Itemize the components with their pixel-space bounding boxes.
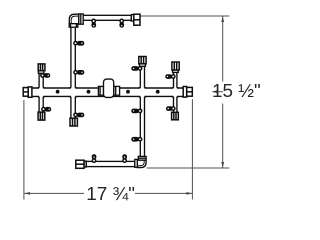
manifold port dot 2 xyxy=(87,90,91,94)
cap of riser 1 lower stub (hatched) xyxy=(38,112,45,120)
jet on right pipe upper stub (points left) xyxy=(131,66,141,71)
riser 4 lower stub below manifold xyxy=(173,96,175,112)
cap at bottom of left pipe (hatched orifice cap) xyxy=(70,118,77,126)
jet of riser 1 lower (points right) xyxy=(42,107,51,112)
bottom pipe left collar xyxy=(84,161,86,167)
bottom pipe end cap xyxy=(76,160,84,168)
riser socket ticks top xyxy=(38,87,179,89)
dimension extension line right (below manifold right end) xyxy=(191,99,193,199)
top elbow (corner upper-left) xyxy=(69,14,79,24)
cap of riser 4 (hatched orifice cap) xyxy=(172,62,179,70)
jet of riser 4 (points left) xyxy=(165,74,175,79)
left vertical pipe lower stub xyxy=(70,96,72,118)
bottom elbow (corner lower-right) xyxy=(137,160,146,168)
top elbow right flange xyxy=(79,14,83,24)
top pipe xyxy=(83,15,132,20)
manifold port dot 3 xyxy=(126,90,130,94)
manifold bottom edge segments xyxy=(32,95,183,97)
bottom elbow left socket xyxy=(135,159,138,167)
riser socket ticks bottom xyxy=(38,96,179,98)
dimension extension line top (from top pipe cap to right) xyxy=(140,15,229,17)
svg-text:15 ½": 15 ½" xyxy=(212,81,261,102)
cap of riser 1 (hatched orifice cap) xyxy=(38,64,45,71)
manifold right end cap xyxy=(187,87,193,96)
dimension extension line bottom right (from bottom elbow to right) xyxy=(147,167,230,169)
manifold port dot 1 xyxy=(56,90,60,94)
svg-text:17 ¾": 17 ¾" xyxy=(86,184,135,205)
manifold port dot 4 xyxy=(156,90,160,94)
top pipe end cap xyxy=(134,14,140,25)
right vertical pipe (from bottom elbow up through manifold) xyxy=(139,96,141,156)
jet of riser 1 (points right) xyxy=(41,73,50,78)
vertical dimension line 15 1/2 upper segment xyxy=(222,16,224,81)
dimension extension line left (below manifold left end) xyxy=(23,100,25,200)
manifold top edge segments xyxy=(32,87,183,89)
bottom pipe xyxy=(86,161,135,166)
arrowhead down (bottom of vertical dimension) xyxy=(221,162,224,168)
jet on left pipe lower stub (points right) xyxy=(74,113,84,118)
center fitting body (rounded) xyxy=(104,79,114,97)
cap of riser 4 lower stub (hatched) xyxy=(172,112,179,120)
top pipe jet 1 (points down) xyxy=(91,19,96,27)
collar under riser 1 cap xyxy=(38,71,44,74)
collar under cap of right pipe stub xyxy=(140,64,146,67)
bottom elbow inner arc xyxy=(137,160,144,166)
riser 1 above manifold (x=41) xyxy=(38,73,40,88)
arrowhead right (horizontal dimension) xyxy=(186,192,192,195)
riser 4 above manifold (x=175) xyxy=(173,72,175,88)
jet on right pipe below manifold 2 (points left) xyxy=(131,137,141,142)
top pipe jet 2 (points down) xyxy=(119,19,124,27)
vertical dimension line 15 1/2 lower segment xyxy=(222,104,224,168)
center fitting left collar xyxy=(98,86,103,95)
manifold right end hex xyxy=(183,87,187,98)
jet on right pipe below manifold 1 (points left) xyxy=(131,109,141,114)
bottom elbow top socket xyxy=(138,156,146,160)
jet of riser 4 lower (points left) xyxy=(166,106,175,111)
cap on top of right pipe stub (hatched orifice cap) xyxy=(139,57,146,64)
right vertical pipe upper stub xyxy=(139,66,141,88)
bottom pipe jet 2 (points up) xyxy=(122,154,127,162)
arrowhead up (top of vertical dimension) xyxy=(221,16,224,22)
horizontal dimension line 17 3/4 left segment xyxy=(24,192,84,194)
manifold left end hex xyxy=(28,87,32,97)
manifold main pipe body fill xyxy=(32,88,183,97)
top elbow inner arc xyxy=(71,16,79,24)
jet on left pipe second (points right) xyxy=(74,70,84,75)
center fitting right collar xyxy=(114,86,120,95)
small leader arrow at text 15 1/2 xyxy=(213,91,223,93)
jet on left pipe upper (points right) xyxy=(74,41,84,46)
horizontal dimension line 17 3/4 right segment xyxy=(135,192,192,194)
collar under riser 4 cap xyxy=(173,70,179,72)
riser 1 lower stub below manifold xyxy=(38,96,40,112)
top pipe right collar xyxy=(131,15,134,21)
top elbow bottom flange xyxy=(69,24,78,28)
manifold left end cap xyxy=(23,88,28,97)
bottom pipe jet 1 (points up) xyxy=(92,154,97,162)
left vertical pipe (from top elbow down through manifold) xyxy=(70,27,72,89)
arrowhead left (horizontal dimension) xyxy=(24,192,30,195)
